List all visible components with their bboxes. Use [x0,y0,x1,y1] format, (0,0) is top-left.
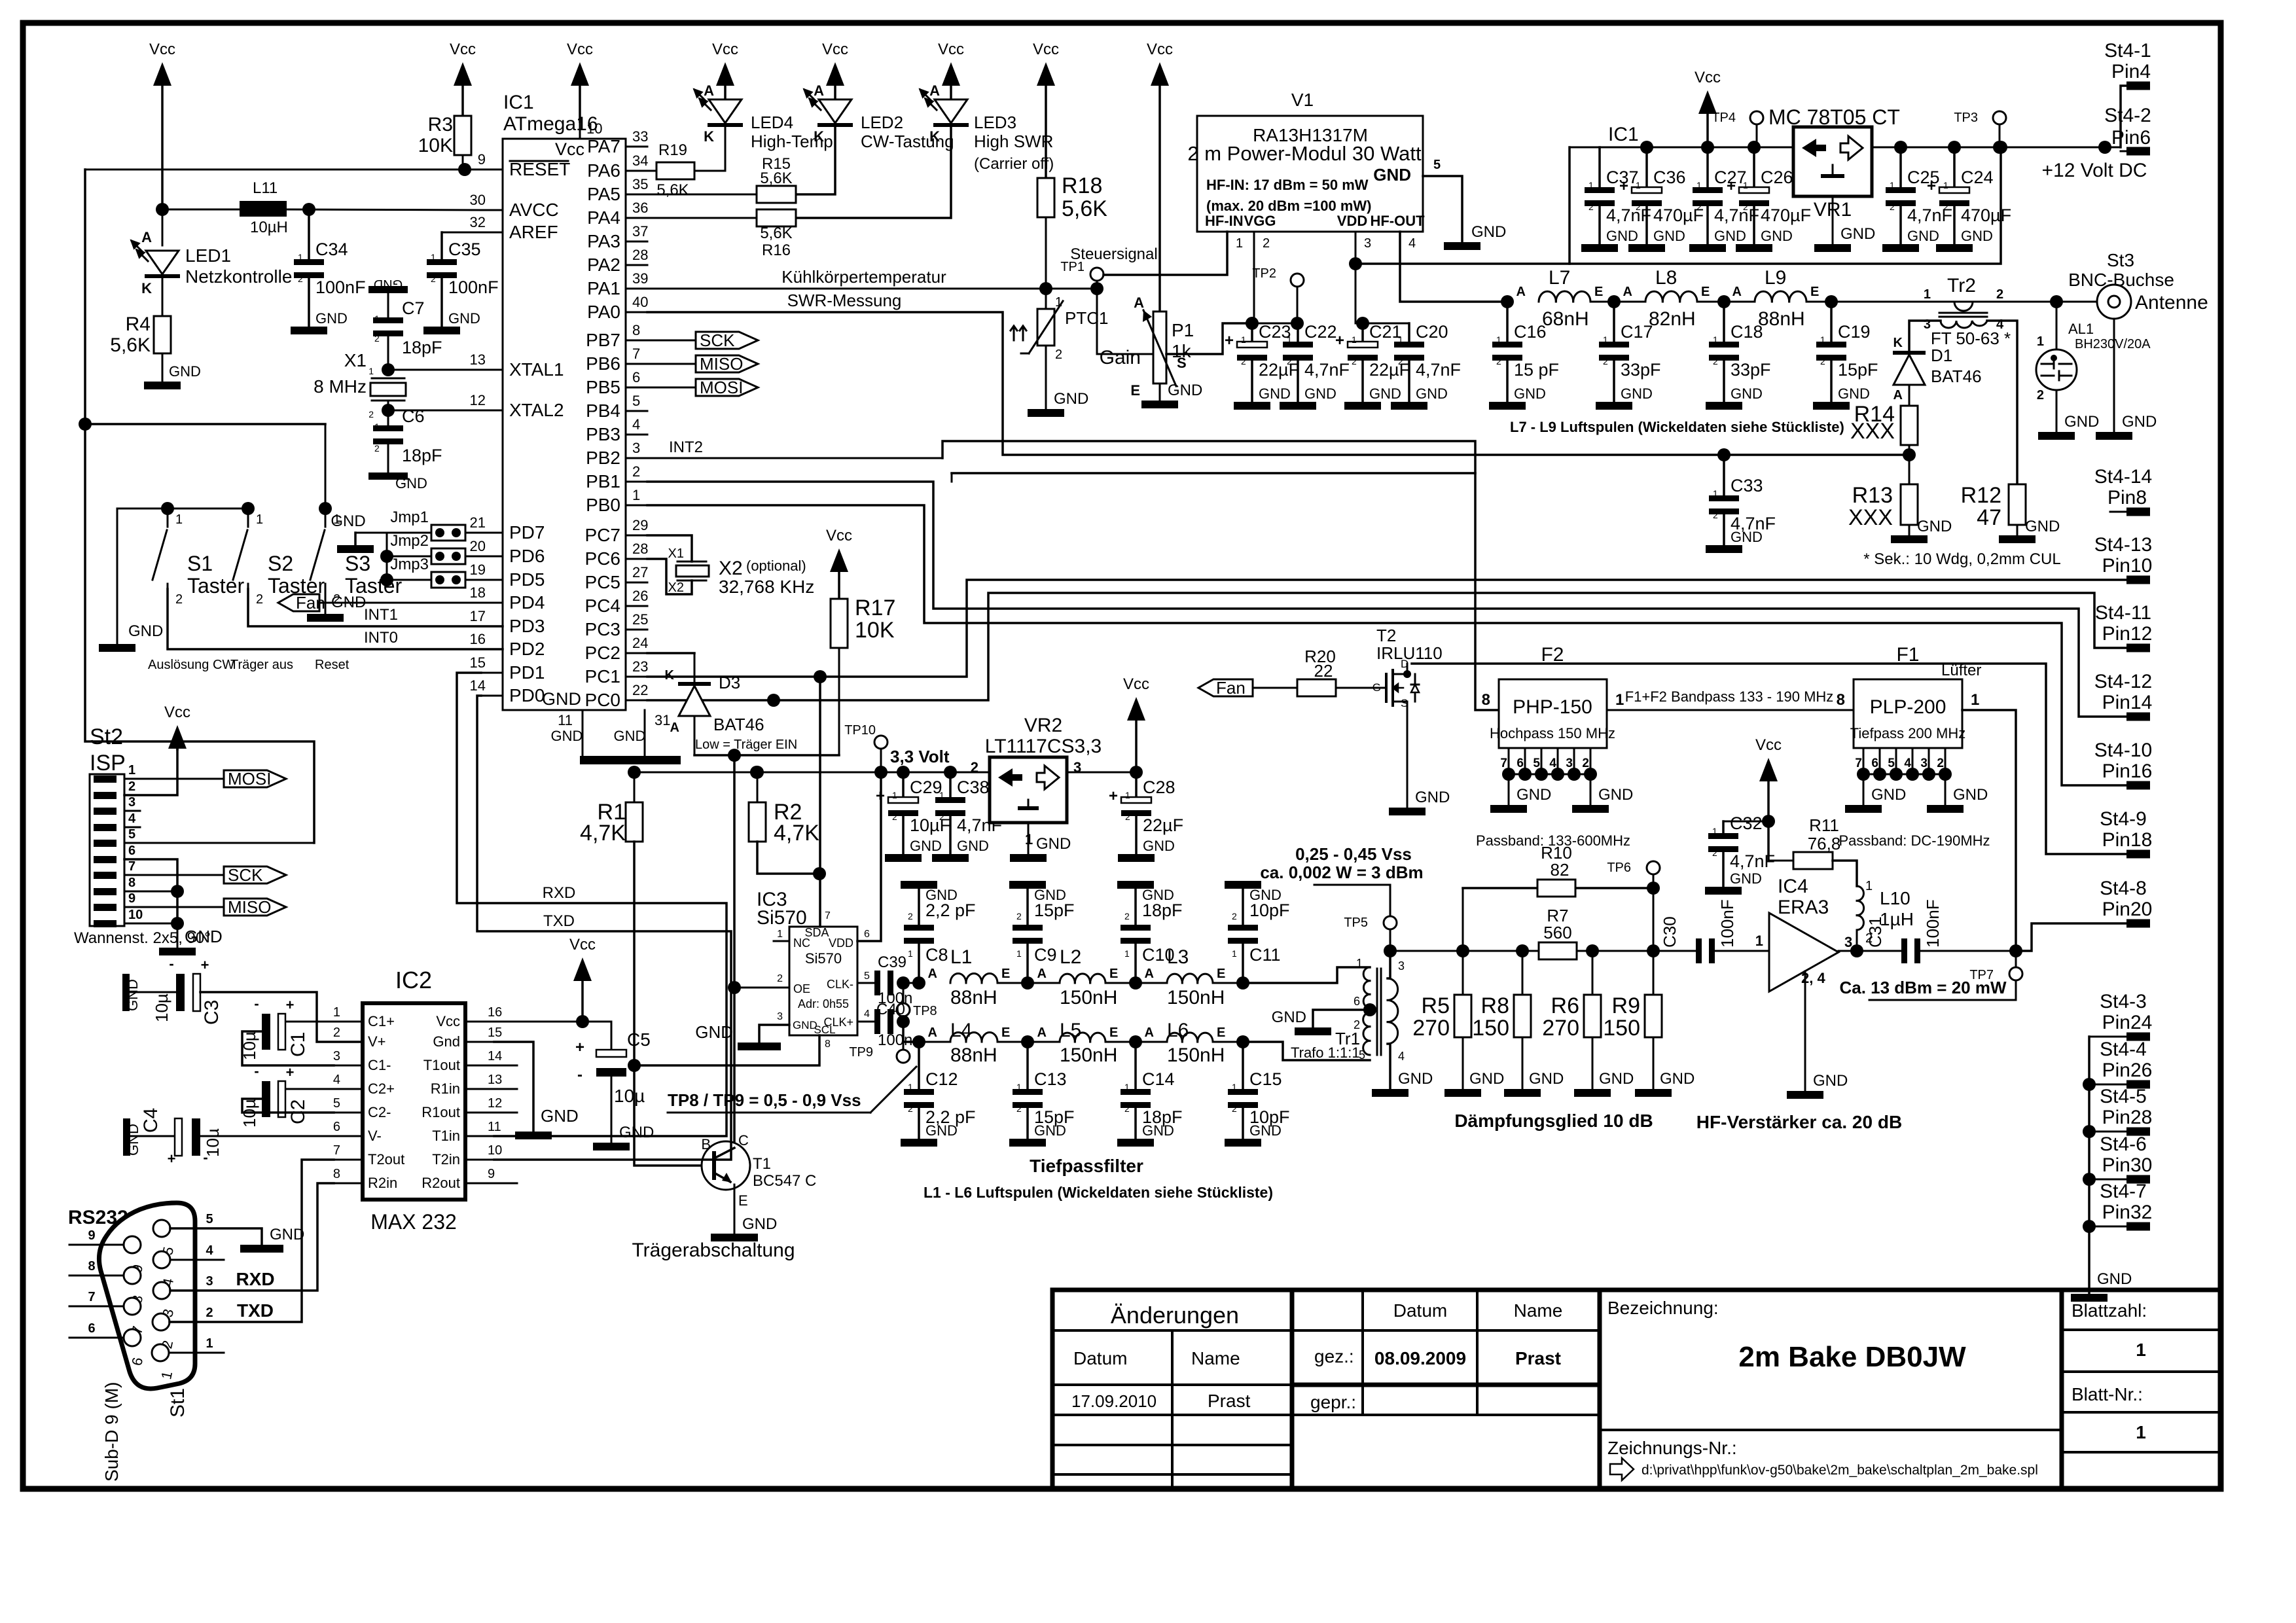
flag MOSI [647,378,758,397]
svg-text:E: E [1217,967,1225,981]
svg-text:A: A [1516,285,1526,299]
svg-text:Jmp1: Jmp1 [390,508,429,526]
svg-text:gez.:: gez.: [1314,1346,1354,1366]
IC1 pins 11,31 GND [542,689,681,764]
capacitor C32 [1705,813,1775,895]
LED4 [694,82,833,171]
svg-text:1: 1 [1398,334,1403,345]
svg-text:2: 2 [939,811,944,822]
label switch functions [148,658,350,672]
svg-text:PA6: PA6 [587,160,620,181]
transistor T1 BC547 [701,1132,816,1234]
svg-text:SWR-Messung: SWR-Messung [787,291,902,310]
switch S1 Taster [152,502,244,607]
capacitor C38 [932,772,1002,862]
flag MISO [647,354,758,374]
svg-text:2: 2 [1287,356,1292,366]
capacitor C10 [1105,881,1183,990]
svg-text:TP9: TP9 [849,1045,873,1060]
svg-text:23: 23 [632,658,648,675]
wire Si570 NC [774,940,789,942]
svg-text:GND: GND [169,363,201,380]
svg-text:1: 1 [368,366,374,376]
inductor L2 [1037,946,1119,1008]
wire DB9 pin7 [69,1290,124,1306]
svg-text:1: 1 [1124,1082,1130,1092]
switch S3 Taster [310,424,402,607]
label TP8 TP9 note [668,1067,916,1113]
filter F2 PHP-150 [1482,644,1624,748]
svg-text:C19: C19 [1838,322,1871,342]
svg-text:Trägerabschaltung: Trägerabschaltung [632,1240,795,1261]
wire PB1 aux [952,473,1475,482]
svg-text:XXX: XXX [1850,419,1895,444]
svg-text:E: E [1109,967,1118,981]
svg-text:1: 1 [1125,790,1130,800]
svg-text:470µF: 470µF [1761,205,1811,225]
svg-text:88nH: 88nH [950,1044,997,1066]
svg-text:Gain: Gain [1100,347,1141,368]
svg-text:VGG: VGG [1244,213,1276,229]
svg-text:7: 7 [1855,757,1862,770]
svg-text:Kühlkörpertemperatur: Kühlkörpertemperatur [781,267,946,287]
wire Luefter Pin18 [1412,662,2126,854]
wire P1 wiper [1166,323,1252,354]
svg-text:22: 22 [1314,661,1333,681]
svg-text:A: A [1623,285,1632,299]
svg-text:3: 3 [128,795,135,810]
label Luftspulen L7-L9 [1510,419,1844,435]
svg-text:A: A [704,82,714,99]
IC1 pin 10 Vcc [555,41,603,159]
svg-text:100n: 100n [878,1031,912,1049]
svg-text:82nH: 82nH [1649,308,1696,330]
svg-text:Vcc: Vcc [164,704,190,721]
label Tiefpassfilter [1030,1156,1143,1176]
svg-text:9: 9 [128,891,135,906]
svg-text:GND: GND [185,927,223,946]
svg-text:31: 31 [655,712,670,728]
svg-text:11: 11 [488,1120,501,1134]
svg-text:1: 1 [1890,180,1895,190]
IC IC3 Si570 [757,889,870,1050]
capacitor C9 [997,881,1075,990]
IC IC2 MAX232 box [363,967,465,1234]
svg-text:A: A [1732,285,1742,299]
svg-text:8: 8 [1482,691,1490,709]
wire PC0 bus Pin12 [647,593,2126,707]
wire ISP pin8 [124,885,184,898]
svg-text:C29: C29 [910,777,942,797]
inductor L1 [928,946,1011,1008]
capacitor C37 [1581,147,1651,252]
svg-text:+: + [286,1064,295,1080]
svg-text:5: 5 [864,971,870,982]
svg-text:LT1117CS3,3: LT1117CS3,3 [985,736,1102,757]
flag SCK [647,330,758,350]
svg-text:-: - [254,995,259,1012]
svg-text:Jmp3: Jmp3 [390,556,429,573]
svg-text:+: + [1335,332,1344,349]
svg-text:Fan: Fan [1216,678,1246,698]
svg-text:1: 1 [206,1336,213,1351]
svg-text:K: K [929,128,940,145]
capacitor C26 [1727,147,1811,252]
svg-text:C26: C26 [1761,168,1793,187]
wire DB9 pin8 [69,1259,124,1275]
svg-text:GND: GND [910,838,942,854]
svg-text:13: 13 [470,351,486,368]
svg-text:C7: C7 [402,298,425,318]
svg-text:7: 7 [88,1290,95,1304]
svg-text:GND: GND [1304,385,1336,402]
svg-text:GND: GND [331,512,365,530]
svg-text:PA2: PA2 [587,255,620,275]
wire Si570 VDD [857,772,881,941]
ground VR2 [1010,823,1071,862]
svg-text:OE: OE [793,982,810,995]
svg-text:2: 2 [1241,356,1246,366]
svg-text:5,6K: 5,6K [1062,196,1107,221]
svg-text:3: 3 [333,1049,340,1063]
svg-text:GND: GND [315,310,348,327]
transistor T2 IRLU110 [1372,626,1443,808]
svg-text:150nH: 150nH [1167,987,1225,1008]
svg-text:1: 1 [128,763,135,777]
svg-text:PA5: PA5 [587,184,620,204]
svg-text:GND: GND [1398,1070,1433,1088]
svg-text:1: 1 [1713,488,1718,499]
svg-text:Vcc: Vcc [938,41,964,58]
svg-text:Dämpfungsglied 10 dB: Dämpfungsglied 10 dB [1454,1111,1653,1131]
svg-text:5: 5 [128,827,135,842]
svg-text:X2: X2 [668,580,684,595]
wire V1 VGG [1246,232,1259,330]
svg-text:39: 39 [632,270,648,287]
inductor L8 [1607,267,1710,330]
svg-text:4: 4 [1904,757,1911,770]
wire 12V rail [1872,141,2121,154]
svg-text:C34: C34 [315,240,348,259]
svg-text:+: + [1727,177,1736,195]
capacitor C13 [997,1035,1075,1147]
svg-text:TP2: TP2 [1252,266,1276,281]
svg-text:B: B [701,1136,711,1152]
svg-text:33pF: 33pF [1731,360,1771,380]
inductor L11 [162,179,481,236]
svg-text:TXD: TXD [237,1300,274,1321]
label Vss note [1260,844,1423,916]
svg-text:GND: GND [1373,165,1411,185]
svg-text:GND: GND [270,1226,304,1243]
svg-text:5,6K: 5,6K [760,224,792,242]
svg-text:-: - [577,1066,583,1084]
resistor R5 [1412,951,1504,1097]
svg-text:14: 14 [488,1049,502,1063]
ground IC2 Gnd [494,1042,579,1139]
test point TP7 [1969,957,2022,982]
svg-text:2: 2 [1352,356,1357,366]
flag MOSI ISP [124,769,286,789]
svg-text:GND: GND [124,979,141,1011]
svg-text:4,7K: 4,7K [774,821,819,846]
svg-text:E: E [1109,1026,1118,1040]
svg-text:C39: C39 [878,954,906,971]
svg-text:BAT46: BAT46 [1931,366,1982,386]
inductor L4 [928,1020,1011,1066]
svg-text:33: 33 [632,128,648,145]
wire Tr1 sec bot [1372,1044,1433,1097]
svg-text:A: A [1134,294,1144,311]
svg-text:4: 4 [864,1008,870,1020]
svg-text:33pF: 33pF [1621,360,1661,380]
wire VDD 12V [1355,141,2007,264]
svg-text:HF-Verstärker ca. 20 dB: HF-Verstärker ca. 20 dB [1696,1112,1902,1132]
svg-text:GND: GND [1272,1008,1306,1026]
label 13dBm [1839,978,2016,1000]
svg-text:Vcc: Vcc [1755,736,1782,754]
svg-text:E: E [1217,1026,1225,1040]
svg-text:8: 8 [128,876,135,890]
Vcc arrow R18 [1033,41,1059,178]
test point TP6 [1607,861,1660,888]
svg-text:T1out: T1out [423,1057,460,1073]
svg-text:L1 - L6 Luftspulen (Wickeldate: L1 - L6 Luftspulen (Wickeldaten siehe St… [924,1184,1273,1201]
svg-text:GND: GND [1606,228,1638,244]
capacitor C5 [575,1022,654,1150]
svg-text:C2+: C2+ [368,1080,395,1097]
svg-text:HF-IN: 17 dBm = 50 mW: HF-IN: 17 dBm = 50 mW [1206,177,1369,193]
svg-text:PA4: PA4 [587,207,620,228]
svg-text:2: 2 [1696,202,1702,212]
svg-text:+: + [1225,332,1234,349]
svg-text:2m Bake DB0JW: 2m Bake DB0JW [1738,1341,1966,1373]
svg-text:C16: C16 [1514,322,1547,342]
svg-text:R5: R5 [1422,993,1450,1018]
svg-text:24: 24 [632,635,648,651]
svg-text:10pF: 10pF [1249,901,1290,920]
svg-text:Netzkontrolle: Netzkontrolle [185,266,292,287]
svg-text:d:\privat\hpp\funk\ov-g50\bake: d:\privat\hpp\funk\ov-g50\bake\2m_bake\s… [1641,1463,2038,1478]
wire DB9 pin4 [170,1243,224,1260]
svg-text:R11: R11 [1809,815,1839,835]
svg-text:IC1: IC1 [503,92,534,113]
IC2 left pins [333,1005,404,1191]
svg-text:15: 15 [488,1026,502,1040]
svg-text:GND: GND [1054,390,1088,408]
svg-text:1: 1 [1865,879,1873,893]
svg-text:GND: GND [1731,385,1763,402]
svg-text:150nH: 150nH [1167,1044,1225,1066]
svg-text:37: 37 [632,223,648,240]
svg-text:A: A [1037,1026,1047,1040]
svg-text:ERA3: ERA3 [1778,897,1829,918]
capacitor C20 [1391,322,1461,410]
wire S tops [99,508,248,652]
svg-text:S3: S3 [345,552,370,575]
svg-text:C12: C12 [925,1069,958,1089]
svg-text:29: 29 [632,517,648,533]
svg-text:270: 270 [1412,1016,1450,1041]
svg-text:2: 2 [431,274,436,284]
svg-text:PB5: PB5 [586,377,620,397]
svg-text:2: 2 [1603,356,1608,366]
wire CLK- C39 [857,982,874,984]
svg-text:2,2 pF: 2,2 pF [925,901,976,920]
svg-text:PD0: PD0 [509,685,545,705]
svg-text:Datum: Datum [1073,1348,1127,1368]
svg-text:R18: R18 [1062,173,1102,198]
IC1 left pins [470,151,571,705]
transformer Tr2 [1924,275,2011,348]
svg-text:GND: GND [1813,1072,1848,1090]
svg-text:L5: L5 [1060,1020,1081,1041]
test point TP9 [849,1022,919,1063]
svg-text:2: 2 [1124,911,1130,921]
crystal X1 [314,350,503,419]
svg-text:L3: L3 [1167,946,1189,968]
svg-text:ca. 0,002 W = 3 dBm: ca. 0,002 W = 3 dBm [1260,863,1423,882]
capacitor C16 [1489,302,1559,410]
wire DB9 pin5 GND [170,1212,304,1253]
capacitor C25 [1882,147,1952,252]
svg-text:R16: R16 [762,241,791,259]
svg-text:V1: V1 [1291,90,1314,110]
svg-text:D1: D1 [1931,346,1952,365]
svg-text:+: + [1619,177,1628,195]
svg-text:12: 12 [470,392,486,408]
label +12 Volt DC [2042,160,2147,181]
wire V1 VDD [1349,232,1362,323]
wire RF line [1590,295,2098,308]
svg-text:C18: C18 [1731,322,1763,342]
svg-text:(Carrier off): (Carrier off) [974,155,1054,173]
svg-text:St4-3: St4-3 [2100,991,2147,1012]
svg-text:15pF: 15pF [1034,901,1075,920]
svg-text:2: 2 [1398,356,1403,366]
svg-text:Pin4: Pin4 [2111,61,2151,82]
svg-text:C4: C4 [140,1108,162,1133]
svg-text:9: 9 [88,1228,95,1243]
svg-text:Vcc: Vcc [436,1013,460,1029]
svg-text:R19: R19 [658,141,687,159]
svg-text:VR2: VR2 [1024,715,1062,736]
svg-text:Tiefpass 200 MHz: Tiefpass 200 MHz [1850,725,1965,741]
svg-text:1: 1 [1743,180,1748,190]
svg-text:Jmp2: Jmp2 [390,532,429,550]
svg-text:20: 20 [470,538,486,554]
resistor R17 [826,527,895,755]
svg-text:GND: GND [1471,223,1506,241]
flag SCK ISP [124,865,286,885]
svg-text:1: 1 [1055,295,1062,310]
svg-text:Pin10: Pin10 [2102,555,2153,577]
svg-text:PB6: PB6 [586,353,620,374]
svg-text:Pin14: Pin14 [2102,692,2153,713]
label Daempfungsglied [1454,1111,1653,1131]
svg-text:TP3: TP3 [1954,111,1978,125]
wire R2 SDA [757,842,826,880]
svg-text:INT1: INT1 [364,606,398,624]
svg-text:270: 270 [1542,1016,1579,1041]
svg-text:7: 7 [333,1143,340,1158]
svg-text:C21: C21 [1369,322,1402,342]
svg-text:+: + [1927,177,1936,195]
Vcc arrow LED1 [149,41,175,209]
svg-text:E: E [1810,285,1819,299]
svg-text:XXX: XXX [1848,505,1893,530]
wire INT0 [168,589,503,649]
svg-text:1: 1 [1603,334,1608,345]
svg-text:Pin30: Pin30 [2102,1154,2153,1176]
svg-text:2: 2 [128,779,135,794]
svg-text:L7: L7 [1549,267,1570,289]
capacitor C17 [1596,302,1661,410]
svg-text:2: 2 [1582,757,1589,770]
svg-text:2: 2 [1055,348,1062,362]
svg-text:5: 5 [1888,757,1895,770]
svg-text:G: G [1372,681,1381,694]
wire VDD caps rail [1355,317,1409,330]
svg-text:AVCC: AVCC [509,200,559,220]
wire R1 T1 base [628,842,714,1166]
svg-text:Low = Träger EIN: Low = Träger EIN [695,738,797,752]
svg-text:Name: Name [1191,1348,1240,1368]
svg-text:GND: GND [1838,385,1870,402]
Vcc arrow LED3 [938,41,964,99]
svg-text:PC6: PC6 [585,548,620,569]
wire ISP pin6 [124,859,177,923]
svg-text:GND: GND [448,310,480,327]
svg-text:32,768 KHz: 32,768 KHz [719,577,814,597]
svg-text:L8: L8 [1655,267,1677,289]
IC2 stub R1out [494,1112,517,1114]
capacitor C39 [874,954,912,1007]
label Sek [1863,550,2060,568]
wire SDA [819,677,821,927]
wire CLK+ C40 [857,1021,874,1023]
svg-text:GND: GND [1961,228,1993,244]
svg-text:7: 7 [128,859,135,874]
svg-text:1: 1 [632,487,640,503]
svg-text:PC5: PC5 [585,572,620,592]
capacitor C22 [1280,322,1350,410]
svg-text:Hochpass 150 MHz: Hochpass 150 MHz [1490,725,1615,741]
inductor L10 [1839,879,1914,957]
svg-text:L6: L6 [1167,1020,1189,1041]
capacitor C2 [240,1063,334,1128]
wire C39 C8 [903,976,925,990]
capacitor C3 [122,955,363,1042]
svg-text:T2in: T2in [432,1151,460,1168]
capacitor C40 [874,1001,912,1049]
regulator VR1 MC 78T05 CT [1768,105,1900,221]
svg-text:F2: F2 [1541,644,1564,666]
svg-text:C33: C33 [1731,476,1763,495]
svg-text:GND: GND [1660,1070,1695,1088]
svg-text:4,7K: 4,7K [580,821,626,846]
svg-text:10µH: 10µH [250,219,288,236]
svg-text:R9: R9 [1612,993,1640,1018]
svg-text:A: A [929,82,940,99]
svg-text:4: 4 [128,811,136,826]
svg-text:SCK: SCK [700,330,735,350]
svg-text:5: 5 [333,1096,340,1111]
resistor R3 [418,41,476,176]
capacitor C12 [901,1042,976,1147]
svg-text:Vcc: Vcc [567,41,593,58]
svg-text:L11: L11 [253,179,278,197]
